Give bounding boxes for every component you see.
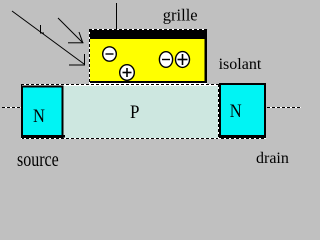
light ray arrow upper: [58, 18, 84, 43]
hole charge circle 1: [120, 65, 135, 81]
svg-text:P: P: [130, 101, 140, 122]
light ray arrow lower: [12, 11, 85, 66]
substrate P region: [21, 84, 266, 139]
svg-text:N: N: [33, 105, 45, 126]
svg-text:grille: grille: [163, 6, 198, 25]
svg-text:isolant: isolant: [219, 56, 262, 73]
hole charge circle 2: [176, 52, 190, 68]
svg-text:source: source: [17, 148, 59, 170]
electron charge circle 2: [159, 52, 172, 68]
electron charge circle 1: [103, 47, 117, 61]
N source region: [22, 87, 63, 138]
svg-text:N: N: [230, 100, 242, 121]
N drain region: [220, 84, 265, 137]
gate (grille) lead wire: [116, 3, 118, 30]
wire source lead: [2, 107, 21, 109]
light ray mid arrowhead tick: [40, 25, 44, 34]
insulator (isolant) yellow block: [89, 29, 207, 84]
svg-text:drain: drain: [256, 150, 289, 167]
wire drain lead: [267, 107, 301, 109]
